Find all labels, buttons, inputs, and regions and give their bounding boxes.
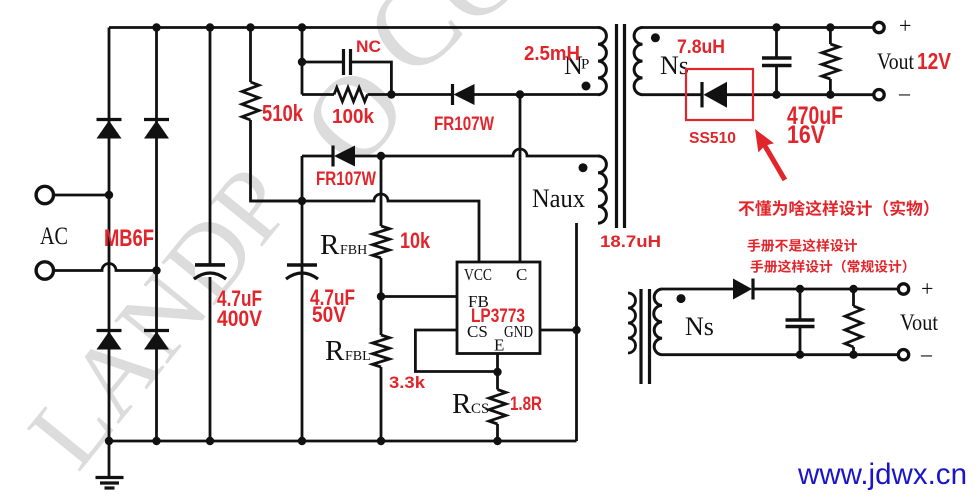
svg-text:FBH: FBH: [340, 243, 367, 258]
svg-text:3.3k: 3.3k: [389, 373, 426, 392]
svg-text:+: +: [899, 13, 911, 38]
resistor 100k: [334, 88, 368, 102]
resistor 510k: [242, 82, 259, 120]
node bottom rail junctions: [105, 437, 113, 445]
terminal manual +: [898, 284, 908, 294]
transformer core: [617, 24, 625, 228]
wire CS loop: [415, 330, 497, 372]
svg-text:1.8R: 1.8R: [510, 394, 542, 415]
resistor RFBH 10k: [373, 226, 390, 258]
node Np polarity dot: [582, 82, 591, 91]
bridge diode D3: [97, 329, 122, 332]
annotation arrow: [755, 129, 787, 181]
terminal Vout+: [874, 22, 884, 32]
svg-text:R: R: [452, 388, 472, 420]
svg-text:CS: CS: [471, 401, 489, 417]
op-amp U1 LP3773 box: [457, 262, 540, 354]
annotation line 2: [748, 239, 857, 252]
svg-text:Ns: Ns: [685, 312, 714, 341]
wire secondary top: [643, 26, 875, 29]
wire manual top: [662, 288, 899, 291]
capacitor 470uF output: [775, 28, 778, 95]
svg-text:400V: 400V: [217, 306, 262, 331]
node top rail junctions: [152, 23, 160, 31]
resistor manual load: [852, 289, 855, 355]
svg-text:7.8uH: 7.8uH: [677, 37, 725, 58]
svg-text:Vout: Vout: [877, 49, 915, 74]
capacitor manual output: [799, 289, 802, 355]
wire bottom rail: [109, 440, 577, 443]
diode FR107W vcc: [331, 146, 334, 167]
svg-text:www.jdwx.cn: www.jdwx.cn: [797, 458, 967, 491]
svg-text:2.5mH: 2.5mH: [524, 43, 580, 65]
red highlight box: [686, 69, 753, 120]
node Ns polarity dot: [651, 33, 660, 42]
wire aux winding to vcc diode with hop: [302, 149, 598, 156]
wire FB to IC: [381, 295, 457, 298]
svg-text:E: E: [494, 336, 504, 355]
transformer primary Np winding: [598, 28, 606, 95]
wire vcc feed with hop: [251, 194, 480, 262]
svg-text:FBL: FBL: [345, 349, 371, 364]
wire GND to aux return: [540, 329, 577, 332]
node secondary top junction 1: [772, 23, 780, 31]
wire AC line 1: [53, 194, 109, 197]
wire bridge branch 2: [155, 28, 158, 442]
manual transformer Ns winding: [654, 289, 662, 355]
svg-text:P: P: [581, 57, 589, 73]
diode manual rectifier: [751, 279, 754, 300]
manual transformer primary winding: [628, 293, 636, 353]
wire E emitter branch: [496, 354, 499, 442]
manual transformer core: [641, 289, 650, 384]
node manual junctions: [796, 285, 804, 293]
terminal AC bottom: [36, 262, 53, 279]
svg-text:CS: CS: [467, 322, 488, 341]
node secondary bottom junction 2: [826, 91, 834, 99]
node secondary bottom junction 1: [772, 91, 780, 99]
transformer aux Naux winding: [598, 156, 606, 223]
svg-text:12V: 12V: [917, 48, 952, 74]
svg-text:18.7uH: 18.7uH: [600, 232, 661, 251]
wire AC line 2 with hop: [53, 264, 157, 271]
annotation line 1: [739, 200, 929, 216]
svg-text:MB6F: MB6F: [104, 225, 154, 252]
svg-text:–: –: [898, 80, 911, 105]
annotation line 3: [751, 260, 907, 273]
svg-text:FR107W: FR107W: [316, 169, 376, 190]
svg-text:R: R: [320, 229, 340, 261]
node AC junctions: [105, 191, 113, 199]
node GND junction: [572, 326, 580, 334]
svg-text:50V: 50V: [312, 302, 346, 327]
terminal Vout-: [874, 90, 884, 100]
node aux junction RFBH top: [377, 152, 385, 160]
terminal AC top: [36, 186, 53, 203]
terminal manual -: [898, 350, 908, 360]
wire bulk cap branch: [209, 28, 212, 442]
node FB junction: [377, 292, 385, 300]
svg-text:10k: 10k: [400, 228, 431, 253]
wire startup resistor branch 510k: [251, 28, 303, 202]
ground: [108, 441, 111, 478]
diode SS510: [700, 82, 703, 107]
wire RFBH branch: [380, 156, 383, 441]
resistor RCS 1.8R: [489, 390, 506, 425]
svg-text:100k: 100k: [332, 106, 375, 128]
resistor output load: [829, 28, 832, 95]
capacitor NC: [344, 49, 351, 75]
wire left bridge branch 1: [108, 28, 111, 442]
resistor RFBL 3.3k: [373, 335, 390, 367]
wire vcc cap branch: [301, 28, 304, 442]
node manual Ns dot: [677, 294, 686, 303]
wire aux return branch: [575, 223, 578, 441]
svg-text:FR107W: FR107W: [434, 114, 494, 135]
svg-text:R: R: [325, 335, 345, 367]
node E junction: [493, 368, 501, 376]
bridge diode D4: [144, 329, 169, 332]
svg-text:16V: 16V: [787, 121, 825, 149]
svg-text:C: C: [516, 265, 527, 284]
node secondary top junction 2: [826, 23, 834, 31]
transformer secondary Ns winding: [634, 28, 642, 95]
bridge diode D1: [97, 118, 122, 121]
node vcc junction: [298, 197, 306, 205]
svg-text:NC: NC: [356, 37, 381, 56]
svg-text:Vout: Vout: [900, 310, 939, 335]
node snubber junctions: [298, 58, 306, 66]
wire manual bottom: [662, 353, 899, 356]
wire collector C to IC: [519, 95, 522, 263]
wire snubber bottom / switch node: [302, 93, 598, 96]
capacitor C1 4.7uF 400V: [195, 263, 225, 266]
svg-text:–: –: [920, 341, 933, 366]
svg-text:VCC: VCC: [464, 265, 492, 284]
svg-text:Naux: Naux: [532, 184, 585, 213]
svg-text:+: +: [921, 276, 933, 301]
svg-text:SS510: SS510: [689, 130, 736, 147]
wire secondary bottom through rectifier: [643, 93, 875, 96]
bridge diode D2: [144, 118, 169, 121]
svg-text:AC: AC: [40, 223, 68, 250]
wire top rail: [109, 26, 598, 29]
svg-text:GND: GND: [504, 322, 533, 341]
node Naux polarity dot: [579, 163, 588, 172]
wire snubber top branch: [302, 62, 391, 95]
svg-text:510k: 510k: [262, 100, 303, 126]
diode FR107W clamp: [451, 84, 454, 105]
capacitor C2 4.7uF 50V: [287, 263, 317, 266]
